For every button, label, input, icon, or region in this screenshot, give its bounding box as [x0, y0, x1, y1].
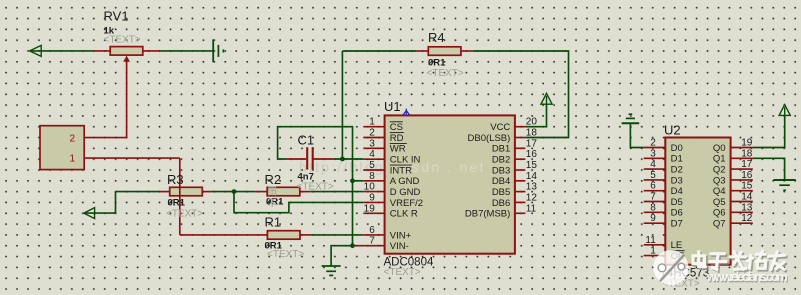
svg-text:D GND: D GND: [390, 187, 421, 198]
svg-text:CLK R: CLK R: [390, 209, 418, 220]
svg-text:DB7(MSB): DB7(MSB): [465, 209, 510, 220]
svg-text:9: 9: [369, 192, 375, 203]
U2 pin 6 (D4): [644, 190, 666, 192]
C1 left pin (red): [286, 158, 306, 160]
ground (rotated right, top rail): [213, 39, 223, 62]
svg-text:8: 8: [650, 202, 656, 213]
svg-text:13: 13: [741, 202, 753, 213]
U1 pin 15 (DB3): [515, 169, 526, 171]
U1 pin 3 (WR): [363, 147, 384, 149]
svg-text:R4: R4: [428, 30, 445, 45]
svg-text:RD: RD: [390, 133, 404, 144]
RV1 wiper wire down (red): [126, 58, 128, 138]
svg-text:D5: D5: [671, 197, 683, 208]
wire corner up (green): [115, 192, 117, 214]
svg-text:6: 6: [369, 225, 375, 236]
svg-text:<TEXT>: <TEXT>: [104, 35, 141, 46]
op-amp U1 body (ADC0804): [385, 115, 515, 253]
svg-text:Q0: Q0: [713, 143, 726, 154]
wire vertical down to R1 (red): [179, 158, 181, 235]
wire to R1 left (red): [180, 234, 268, 236]
wire connector pin2 to RV1 wiper (red): [84, 137, 127, 139]
svg-text:<TEXT>: <TEXT>: [297, 182, 334, 193]
RV1 left pin (red): [94, 50, 110, 52]
svg-text:C1: C1: [298, 133, 315, 148]
RV1 wiper arrow: [123, 56, 130, 62]
U2 pin 8 (D6): [644, 211, 666, 213]
U2 pin 14 (Q5): [731, 201, 753, 203]
svg-text:D7: D7: [671, 219, 683, 230]
U1 pin 6 (VIN+): [363, 234, 384, 236]
wire pin7 to ground (green): [331, 246, 352, 266]
svg-text:A GND: A GND: [390, 176, 420, 187]
svg-text:R1: R1: [265, 215, 282, 230]
U1 pin 1 (CS): [363, 126, 384, 128]
svg-text:19: 19: [741, 138, 753, 149]
R2 left pin (red): [256, 191, 268, 193]
resistor R2 body: [267, 187, 300, 196]
svg-text:5: 5: [650, 170, 656, 181]
U2 pin 19 (Q0): [731, 147, 753, 149]
svg-text:11: 11: [526, 203, 537, 214]
U2 pin 4 (D2): [644, 168, 666, 170]
connector J1 body: [40, 126, 84, 170]
U1 pin 2 (RD): [363, 137, 384, 139]
svg-text:18: 18: [526, 128, 538, 139]
svg-text:U1: U1: [384, 99, 401, 114]
svg-text:7: 7: [650, 192, 656, 203]
svg-text:D1: D1: [671, 154, 683, 165]
U2 pin 9 (D7): [644, 222, 666, 224]
watermark gray glyph near R2: [269, 187, 277, 207]
wire to pin8 (green): [353, 180, 364, 182]
ground (right of U2): [773, 180, 795, 190]
svg-text:5: 5: [369, 160, 375, 171]
svg-text:VIN+: VIN+: [390, 230, 412, 241]
svg-text:1: 1: [69, 154, 75, 165]
wire R4 to DB0 (green): [472, 51, 568, 138]
svg-text:20: 20: [526, 117, 538, 128]
U1 blue origin marker: [403, 109, 410, 116]
U1 pin 4 (CLK IN): [363, 158, 384, 160]
svg-text:D2: D2: [671, 165, 683, 176]
svg-text:WR: WR: [390, 144, 406, 155]
wire crossing over R3 (red): [179, 186, 181, 197]
watermark brand characters (dian zi fa shao you) shadow: [695, 253, 787, 271]
svg-text:RV1: RV1: [104, 9, 129, 24]
R1 right pin (red): [300, 234, 311, 236]
watermark logo circle: [653, 250, 688, 285]
U1 pin 11 (DB7(MSB)): [515, 212, 526, 214]
U1 pin 8 (A GND): [363, 180, 384, 182]
svg-text:14: 14: [741, 192, 753, 203]
input terminal arrow 2: [84, 208, 95, 219]
svg-text:17: 17: [526, 138, 538, 149]
U2 pin 13 (Q6): [731, 211, 753, 213]
junction node CLK: [340, 157, 345, 162]
U2 pin 18 (Q1): [731, 157, 753, 159]
U1 pin 14 (DB4): [515, 180, 526, 182]
svg-text:10: 10: [364, 182, 376, 193]
wire RV1 to ground (green): [160, 50, 213, 52]
svg-text:18: 18: [741, 148, 753, 159]
svg-text:LE: LE: [671, 240, 683, 251]
capacitor C1 plates: [307, 147, 313, 169]
C1 right pin (red): [314, 158, 334, 160]
junction node VREF tap: [232, 189, 237, 194]
svg-text:15: 15: [526, 160, 538, 171]
power terminal +V (U1): [541, 93, 552, 104]
R3 left pin (red): [159, 191, 169, 193]
U2 pin 12 (Q7): [731, 222, 753, 224]
svg-text:<TEXT>: <TEXT>: [384, 267, 421, 278]
svg-text:D4: D4: [671, 186, 683, 197]
svg-text:11: 11: [645, 235, 656, 246]
wire VCC pin20 to power (green): [525, 104, 546, 127]
svg-text:2: 2: [650, 138, 656, 149]
svg-text:1: 1: [650, 246, 656, 257]
U2 pin 11 (LE): [644, 244, 666, 246]
wire R4 left (green): [342, 50, 416, 52]
svg-text:<TEXT>: <TEXT>: [427, 68, 464, 79]
svg-text:DB2: DB2: [492, 155, 510, 166]
svg-text:D0: D0: [671, 143, 683, 154]
svg-text:13: 13: [526, 182, 538, 193]
wire arrow2 to corner (green): [85, 212, 116, 214]
U1 pin 5 (INTR): [363, 169, 384, 171]
svg-text:17: 17: [741, 159, 753, 170]
U1 pin 20 (VCC): [515, 126, 526, 128]
svg-text:DB0(LSB): DB0(LSB): [468, 133, 511, 144]
R2 right pin (red): [300, 191, 310, 193]
U1 pin 9 (VREF/2): [363, 201, 384, 203]
R4 left pin (red): [416, 50, 428, 52]
U2 pin 7 (D5): [644, 201, 666, 203]
U1 pin 12 (DB6): [515, 201, 526, 203]
svg-text:D6: D6: [671, 208, 683, 219]
svg-text:R2: R2: [265, 172, 282, 187]
svg-text:4: 4: [369, 149, 375, 160]
junction node VIN- (pin7): [350, 243, 355, 248]
svg-text:VCC: VCC: [490, 122, 510, 133]
svg-text:0R1: 0R1: [168, 198, 186, 209]
svg-text:<TEXT>: <TEXT>: [166, 208, 203, 219]
svg-text:8: 8: [369, 171, 375, 182]
wire C1 left loop (green): [278, 127, 353, 246]
svg-text:9: 9: [650, 213, 656, 224]
svg-text:DB3: DB3: [492, 165, 510, 176]
U1 pin 16 (DB2): [515, 158, 526, 160]
U1 pin 13 (DB5): [515, 191, 526, 193]
svg-text:<TEXT>: <TEXT>: [267, 249, 304, 260]
svg-text:16: 16: [741, 170, 753, 181]
svg-text:D3: D3: [671, 175, 683, 186]
svg-text:Q3: Q3: [713, 175, 726, 186]
junction node AGND (pin8): [350, 178, 355, 183]
svg-text:6: 6: [650, 181, 656, 192]
ground (below VIN-): [322, 266, 341, 275]
U1 pin 7 (VIN-): [354, 245, 385, 247]
R4 right pin (red): [461, 50, 472, 52]
wire R1 to U1 pin6 (green): [311, 234, 363, 236]
R3 right pin (red): [202, 191, 211, 193]
ground (inverted, above U2 pin 2): [622, 114, 640, 123]
svg-text:1: 1: [369, 117, 375, 128]
power terminal +V (U2): [779, 105, 790, 116]
U2 pin 2 (D0): [644, 147, 666, 149]
resistor R3 body: [170, 187, 203, 196]
svg-text:0R1: 0R1: [266, 197, 284, 208]
svg-text:www.elecfans.com: www.elecfans.com: [706, 270, 788, 284]
wire U2 pin19 to power (green): [753, 115, 785, 147]
input terminal arrow (left): [30, 45, 42, 56]
svg-text:12: 12: [741, 213, 753, 224]
U2 pin 3 (D1): [644, 157, 666, 159]
svg-text:Q5: Q5: [713, 197, 726, 208]
wire ground to U2 pin2 (green): [630, 123, 643, 147]
watermark brand characters (white): [693, 251, 785, 269]
svg-text:VIN-: VIN-: [390, 241, 409, 252]
U1 pin 17 (DB1): [515, 147, 526, 149]
wire R2 to U1 pin10 (green): [310, 191, 363, 193]
svg-text:12: 12: [526, 192, 538, 203]
svg-text:R3: R3: [167, 172, 184, 187]
U1 pin 18 (DB0(LSB)): [515, 137, 526, 139]
U2 pin 16 (Q3): [731, 179, 753, 181]
latch U2 body (74HC573): [665, 138, 730, 265]
svg-text:DB4: DB4: [492, 176, 510, 187]
RV1 right pin (red): [143, 50, 160, 52]
svg-text:U2: U2: [664, 123, 681, 138]
svg-text:16: 16: [526, 149, 538, 160]
svg-text:DB1: DB1: [492, 144, 510, 155]
wire to R3 left (green): [116, 191, 161, 193]
svg-text:Q6: Q6: [713, 208, 726, 219]
resistor R4 body: [428, 47, 461, 56]
svg-text:DB6: DB6: [492, 198, 510, 209]
svg-text:INTR: INTR: [390, 165, 412, 176]
potentiometer RV1 body: [110, 47, 143, 56]
svg-text:VREF/2: VREF/2: [390, 198, 423, 209]
svg-text:4: 4: [650, 159, 656, 170]
svg-text:CS: CS: [390, 122, 403, 133]
U2 pin 15 (Q4): [731, 190, 753, 192]
U2 pin 5 (D3): [644, 179, 666, 181]
wire arrow to RV1 (green): [30, 50, 94, 52]
svg-text:3: 3: [650, 148, 656, 159]
svg-text:Q4: Q4: [713, 186, 726, 197]
U1 pin 10 (D GND): [363, 191, 384, 193]
svg-text:15: 15: [741, 181, 753, 192]
svg-text:Q1: Q1: [713, 154, 726, 165]
wire connector pin1 right (red): [84, 157, 180, 159]
svg-text:2: 2: [369, 128, 375, 139]
svg-text:Q7: Q7: [713, 219, 726, 230]
wire C1 to pin4 (green): [333, 158, 363, 160]
wire U2 pin18 to ground (green): [753, 158, 785, 180]
svg-text:Q2: Q2: [713, 165, 726, 176]
U2 pin 1 (OE): [644, 255, 666, 257]
svg-text:3: 3: [369, 138, 375, 149]
svg-text:DB5: DB5: [492, 187, 510, 198]
svg-text:CLK IN: CLK IN: [390, 155, 421, 166]
svg-text:19: 19: [364, 203, 376, 214]
svg-text:14: 14: [526, 171, 538, 182]
U2 pin 17 (Q2): [731, 168, 753, 170]
wire R4 left vertical (green): [341, 51, 343, 159]
resistor R1 body: [267, 231, 300, 240]
svg-text:2: 2: [69, 134, 75, 145]
wire R3 to R2 (green): [211, 191, 256, 193]
svg-text:7: 7: [369, 236, 375, 247]
wire junction loop down (green): [234, 192, 363, 213]
U1 pin 19 (CLK R): [363, 212, 384, 214]
